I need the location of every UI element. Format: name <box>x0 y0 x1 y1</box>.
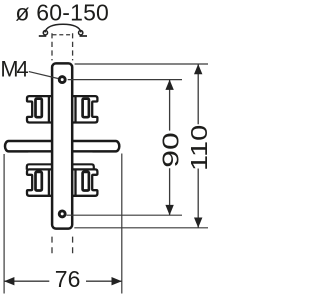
clip lower right outline <box>72 169 98 195</box>
dashed hidden line below bar left <box>51 237 53 254</box>
dashed hidden line below bar right <box>72 237 74 254</box>
central bar <box>52 63 72 228</box>
top hole M4 <box>59 77 65 83</box>
arrow 90 up <box>165 80 173 90</box>
band left curl <box>43 31 47 35</box>
leader from M4 to top hole <box>29 72 58 79</box>
svg-text:ø 60-150: ø 60-150 <box>15 0 109 25</box>
clip upper right outline <box>72 96 98 122</box>
crossbar horizontal slot bar <box>5 141 119 151</box>
dashed chord of band <box>53 34 74 36</box>
extension line top for 90 <box>68 79 182 81</box>
dimension line 110 <box>197 64 199 228</box>
band right curl <box>79 31 83 35</box>
svg-text:M4: M4 <box>0 56 28 81</box>
clip lower right slot <box>83 172 89 191</box>
lower carrier plate left <box>27 164 53 169</box>
clip lower left outline <box>27 169 53 195</box>
svg-text:110: 110 <box>186 125 212 171</box>
lower carrier plate right <box>71 164 94 170</box>
clip upper right slot <box>83 99 89 118</box>
pole clamp band arc <box>45 24 81 32</box>
arrow 76 right <box>112 277 122 285</box>
clip lower left slot <box>36 172 42 191</box>
svg-text:76: 76 <box>55 266 81 292</box>
extension line bottom for 110 <box>74 227 208 229</box>
extension line bottom for 90 <box>67 214 182 216</box>
band right foot <box>80 35 88 37</box>
dimension line 90 <box>169 80 171 216</box>
clip upper left outline <box>27 96 53 122</box>
dashed hidden line above bar left <box>51 33 53 60</box>
clip upper left slot <box>36 99 42 118</box>
bottom hole <box>59 211 65 217</box>
white fill of carrier plate left <box>28 153 52 163</box>
extension line top for 110 <box>75 63 208 65</box>
band left foot <box>39 35 47 37</box>
white fill of carrier plate right <box>72 153 93 163</box>
dashed hidden line above bar right <box>72 33 74 60</box>
arrow 110 up <box>194 64 202 74</box>
dimension line 76 <box>4 280 122 282</box>
arrow 76 left <box>4 277 14 285</box>
extension line right for 76 <box>121 154 123 294</box>
extension line left for 76 <box>3 154 5 294</box>
arrow 110 down <box>194 218 202 228</box>
svg-text:90: 90 <box>158 132 184 168</box>
arrow 90 down <box>165 205 173 215</box>
